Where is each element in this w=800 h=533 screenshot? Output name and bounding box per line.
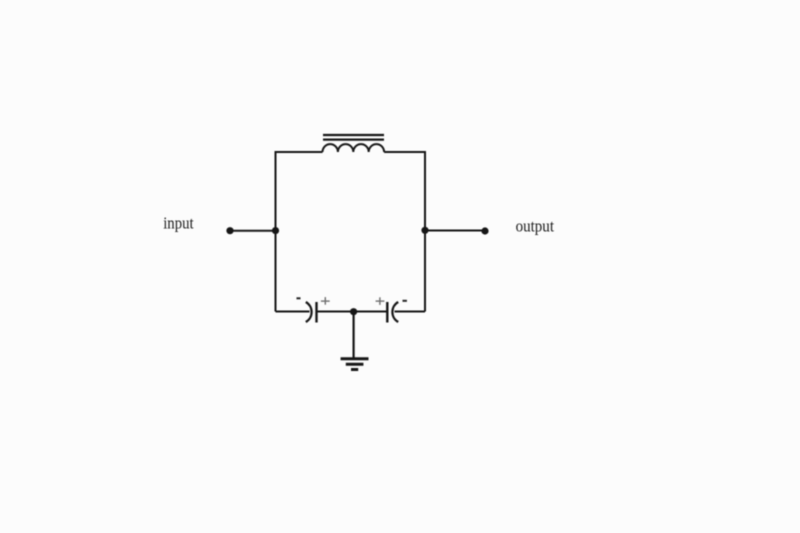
label C1 plus [321,297,330,305]
wire: output lead [425,230,485,232]
inductor L1 core line upper [323,134,384,136]
svg-text:output: output [516,217,555,236]
inductor L1 core line lower [323,139,384,141]
capacitor C1 curved plate (negative) [306,302,312,322]
ground bar 1 [341,357,369,360]
ground bar 3 [351,368,358,371]
capacitor C2 straight plate (positive) [386,302,388,323]
label C2 plus [376,297,385,305]
label C2 minus [403,300,407,302]
node: output junction [421,227,428,234]
wire: bottom-center segment [317,311,388,313]
label C1 minus [297,297,301,299]
capacitor C1 (left, polarized) [306,302,317,323]
capacitor C1 straight plate (positive) [315,302,317,323]
node: input junction [272,227,279,234]
wire: left branch (bottom-left corner up to top-left corner and across to inductor) [276,152,323,312]
inductor L1 [323,135,385,152]
output terminal dot [481,227,488,234]
input terminal dot [226,227,233,234]
wire: bottom-left segment [276,311,310,313]
node: center bottom junction [350,308,357,315]
capacitor C2 curved plate (negative) [392,302,398,322]
wire: input lead [230,230,276,232]
wire: bottom-right segment [395,311,426,313]
inductor L1 coil [323,144,385,152]
svg-text:input: input [163,214,194,233]
wire: ground lead [353,312,355,359]
ground [341,359,369,370]
ground bar 2 [346,363,364,366]
wire: top-right segment (inductor to top-right corner, down right side) [384,152,425,312]
capacitor C2 (right, polarized) [387,302,398,323]
